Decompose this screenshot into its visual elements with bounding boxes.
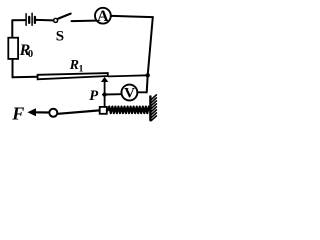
svg-text:0: 0: [28, 49, 33, 60]
battery B1 plate long 2: [31, 13, 33, 25]
wire P to voltmeter: [105, 93, 121, 95]
resistor R0 box: [8, 38, 18, 59]
svg-text:R: R: [69, 58, 79, 73]
slider P contact arrow: [101, 77, 108, 82]
wire switch to ammeter: [72, 20, 96, 23]
switch S blade: [58, 14, 70, 19]
junction dot P: [102, 92, 108, 98]
wire top-left horizontal: [12, 19, 25, 21]
battery B1 plate long 1: [25, 14, 27, 26]
ammeter U1 circle: [95, 8, 111, 24]
svg-text:1: 1: [79, 64, 84, 74]
wire bottom-left horizontal to rheostat: [13, 76, 38, 79]
wire left vertical upper: [11, 20, 13, 38]
wire rheostat right end to right wire: [109, 75, 148, 76]
junction dot right wire: [146, 73, 150, 77]
switch S pivot circle: [54, 18, 58, 22]
wall hatch 2: [151, 98, 156, 103]
wall hatch 1: [151, 95, 156, 100]
slider block: [100, 107, 107, 114]
battery B1 plate short 1: [28, 17, 30, 23]
battery B1 plate short 2: [34, 17, 36, 23]
wall hatch 7: [151, 113, 156, 118]
wire R0 bottom to bottom-left corner: [12, 60, 14, 77]
wall hatch 8: [151, 116, 156, 121]
svg-text:P: P: [89, 88, 98, 104]
wall hatch 3: [151, 101, 156, 106]
spring: [108, 107, 150, 114]
wire battery to switch: [36, 19, 53, 22]
wall hatch 4: [151, 104, 156, 109]
wire voltmeter to right wire: [138, 91, 146, 93]
force arrow F head: [27, 108, 36, 116]
rheostat R1 body: [38, 73, 108, 79]
wire right vertical: [147, 17, 153, 92]
svg-text:F: F: [11, 104, 24, 124]
svg-text:V: V: [124, 86, 135, 102]
wall hatch 5: [151, 107, 156, 112]
voltmeter U2 circle: [121, 85, 137, 101]
svg-text:S: S: [56, 29, 64, 45]
svg-text:A: A: [97, 8, 109, 25]
hook ring: [49, 109, 57, 117]
wall vertical bar: [149, 97, 151, 121]
slider P stem: [104, 82, 106, 107]
wall hatch 6: [151, 110, 156, 115]
force rod left segment: [35, 111, 49, 113]
force rod right segment: [58, 110, 100, 113]
wire ammeter to top-right corner: [112, 16, 153, 17]
